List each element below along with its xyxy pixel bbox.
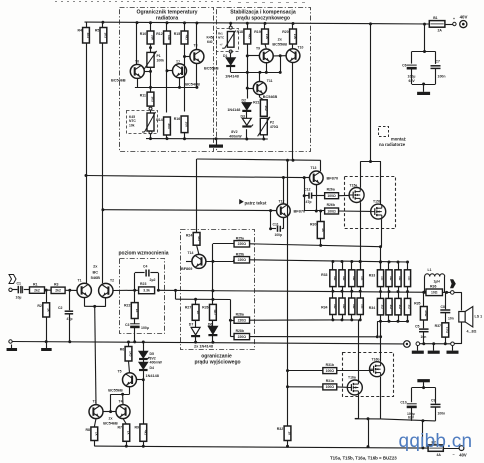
- svg-text:220Ω: 220Ω: [238, 258, 247, 262]
- svg-text:1Ω: 1Ω: [333, 304, 337, 309]
- svg-text:4k7: 4k7: [213, 310, 217, 316]
- svg-text:1k: 1k: [127, 431, 131, 435]
- svg-text:C9: C9: [431, 399, 435, 403]
- svg-text:3.3k: 3.3k: [143, 289, 150, 293]
- svg-text:R16: R16: [174, 117, 180, 121]
- svg-text:4k7: 4k7: [248, 34, 252, 40]
- svg-text:R31a: R31a: [326, 379, 334, 383]
- svg-text:10Ω: 10Ω: [446, 327, 450, 334]
- svg-text:R30: R30: [310, 223, 316, 227]
- svg-text:1Ω: 1Ω: [342, 276, 346, 281]
- svg-text:C8: C8: [441, 305, 445, 309]
- svg-text:P1: P1: [157, 54, 161, 58]
- svg-text:R2: R2: [37, 304, 42, 308]
- svg-text:1k: 1k: [196, 311, 200, 315]
- svg-text:3k3: 3k3: [86, 32, 90, 38]
- svg-text:R11: R11: [140, 94, 146, 98]
- svg-text:R26a: R26a: [327, 188, 335, 192]
- svg-text:T1: T1: [78, 278, 82, 282]
- svg-text:C4: C4: [143, 265, 147, 269]
- svg-text:C11: C11: [273, 222, 279, 226]
- svg-text:D2: D2: [242, 99, 247, 103]
- svg-text:T15b: T15b: [373, 200, 381, 204]
- svg-text:C5: C5: [415, 325, 420, 329]
- svg-text:470Ω: 470Ω: [270, 125, 279, 129]
- svg-text:R36: R36: [430, 285, 436, 289]
- svg-text:220Ω: 220Ω: [238, 319, 247, 323]
- svg-text:3k3: 3k3: [151, 96, 155, 102]
- svg-text:1N4148: 1N4148: [225, 74, 239, 79]
- svg-text:1Ω: 1Ω: [333, 276, 337, 281]
- svg-text:100: 100: [293, 34, 297, 40]
- svg-text:R24: R24: [186, 234, 192, 238]
- svg-text:R3: R3: [54, 282, 59, 286]
- svg-text:1Ω: 1Ω: [389, 304, 393, 309]
- svg-text:1Ω: 1Ω: [398, 304, 402, 309]
- svg-text:C2: C2: [58, 306, 63, 310]
- svg-text:R25a: R25a: [236, 236, 244, 240]
- svg-text:R19: R19: [254, 30, 260, 34]
- svg-text:+: +: [453, 17, 455, 21]
- svg-text:100p: 100p: [275, 233, 283, 237]
- svg-text:3k3: 3k3: [167, 123, 171, 129]
- svg-text:radiatora: radiatora: [156, 16, 178, 22]
- svg-text:BF870: BF870: [294, 208, 306, 213]
- svg-text:10k: 10k: [185, 122, 189, 128]
- svg-text:1k2: 1k2: [264, 105, 268, 111]
- svg-text:546B: 546B: [91, 275, 100, 280]
- svg-text:1k5: 1k5: [129, 351, 133, 357]
- svg-text:BF870: BF870: [327, 175, 339, 180]
- svg-text:4...8Ω: 4...8Ω: [467, 330, 477, 334]
- svg-text:40V: 40V: [460, 14, 468, 19]
- svg-text:T15a: T15a: [350, 183, 358, 187]
- svg-text:1Ω: 1Ω: [352, 304, 356, 309]
- svg-text:1N4148: 1N4148: [227, 108, 240, 112]
- svg-text:BC556B: BC556B: [272, 43, 287, 47]
- svg-text:1N4148: 1N4148: [146, 374, 159, 378]
- svg-text:4k7: 4k7: [144, 430, 148, 436]
- svg-text:R33: R33: [369, 273, 375, 277]
- svg-text:R14: R14: [156, 118, 162, 122]
- svg-text:10µ: 10µ: [16, 296, 22, 300]
- svg-text:C6: C6: [402, 64, 406, 68]
- svg-text:R7: R7: [118, 426, 123, 430]
- svg-text:R22: R22: [124, 304, 130, 308]
- svg-text:T16b: T16b: [372, 357, 380, 361]
- svg-text:100Ω: 100Ω: [327, 209, 336, 213]
- svg-text:1k: 1k: [321, 228, 325, 232]
- svg-text:R9: R9: [135, 426, 140, 430]
- svg-text:400mW: 400mW: [150, 361, 163, 365]
- svg-text:R5: R5: [95, 29, 100, 33]
- svg-text:1Ω: 1Ω: [408, 304, 412, 309]
- svg-text:D7: D7: [189, 323, 194, 327]
- svg-text:100µ: 100µ: [141, 326, 149, 330]
- svg-text:1µH: 1µH: [434, 279, 441, 283]
- svg-text:1Ω: 1Ω: [408, 276, 412, 281]
- svg-text:prądu wyjściowego: prądu wyjściowego: [194, 359, 240, 365]
- svg-text:2µ2: 2µ2: [150, 278, 156, 282]
- svg-text:L1: L1: [428, 268, 432, 272]
- svg-text:1k: 1k: [288, 431, 292, 435]
- svg-text:D4: D4: [150, 366, 155, 370]
- svg-text:R33: R33: [321, 273, 327, 277]
- svg-text:10Ω: 10Ω: [424, 310, 428, 317]
- svg-text:33k: 33k: [167, 35, 171, 41]
- svg-text:2k2: 2k2: [34, 288, 40, 292]
- svg-text:C1: C1: [17, 282, 22, 286]
- svg-text:10n: 10n: [448, 317, 454, 321]
- svg-text:1Ω: 1Ω: [381, 276, 385, 281]
- svg-text:100: 100: [265, 34, 269, 40]
- svg-text:R1: R1: [33, 282, 38, 286]
- svg-text:40V: 40V: [459, 453, 467, 458]
- svg-text:R34: R34: [321, 306, 327, 310]
- svg-text:100n: 100n: [438, 75, 446, 79]
- svg-text:P2: P2: [270, 121, 274, 125]
- svg-text:39k: 39k: [151, 35, 155, 41]
- svg-text:R35: R35: [414, 301, 420, 305]
- svg-text:T2: T2: [110, 278, 114, 282]
- svg-text:poziom wzmocnienia: poziom wzmocnienia: [118, 250, 168, 256]
- svg-text:1Ω: 1Ω: [398, 276, 402, 281]
- svg-text:BC556B: BC556B: [204, 67, 219, 71]
- svg-text:BC546B: BC546B: [263, 95, 278, 99]
- svg-text:C12: C12: [304, 187, 310, 191]
- svg-text:R28b: R28b: [236, 329, 244, 333]
- svg-text:na radiatorze: na radiatorze: [379, 142, 406, 147]
- svg-text:100k: 100k: [157, 59, 165, 63]
- svg-text:R37: R37: [435, 324, 441, 328]
- svg-text:R12: R12: [156, 32, 162, 36]
- svg-text:T11: T11: [267, 79, 273, 83]
- svg-text:1Ω: 1Ω: [342, 304, 346, 309]
- svg-text:T15a, T15b, T16a, T16b = BUZ23: T15a, T15b, T16a, T16b = BUZ23: [330, 455, 397, 460]
- svg-text:T3: T3: [93, 400, 97, 404]
- svg-text:T16a: T16a: [348, 376, 356, 380]
- svg-text:T13: T13: [311, 166, 317, 170]
- svg-text:R31b: R31b: [326, 363, 334, 367]
- svg-text:220Ω: 220Ω: [238, 335, 247, 339]
- svg-text:C7: C7: [436, 60, 440, 64]
- svg-text:B1: B1: [433, 16, 437, 20]
- svg-text:R32: R32: [277, 427, 283, 431]
- svg-text:NTC: NTC: [218, 36, 225, 40]
- svg-text:T4: T4: [119, 400, 123, 404]
- svg-text:R26: R26: [202, 305, 208, 309]
- svg-text:montaż: montaż: [391, 137, 406, 142]
- svg-text:patrz tekst: patrz tekst: [245, 200, 267, 205]
- svg-text:1Ω: 1Ω: [389, 276, 393, 281]
- svg-text:1Ω: 1Ω: [360, 276, 364, 281]
- svg-text:100n: 100n: [438, 412, 446, 416]
- svg-text:R4: R4: [78, 29, 83, 33]
- svg-text:1Ω: 1Ω: [352, 276, 356, 281]
- svg-text:R21: R21: [253, 101, 259, 105]
- svg-text:R6: R6: [120, 348, 125, 352]
- svg-text:R27: R27: [185, 305, 191, 309]
- svg-text:1Ω: 1Ω: [381, 304, 385, 309]
- svg-text:R28a: R28a: [236, 313, 244, 317]
- svg-text:C3: C3: [125, 323, 130, 327]
- svg-text:640: 640: [207, 40, 213, 44]
- svg-text:BC556B: BC556B: [108, 389, 123, 393]
- svg-text:400mW: 400mW: [229, 134, 242, 138]
- svg-text:1k: 1k: [46, 308, 50, 312]
- svg-text:4A: 4A: [437, 453, 442, 457]
- svg-text:10k: 10k: [129, 124, 135, 128]
- svg-text:1k: 1k: [135, 309, 139, 313]
- svg-text:4k7: 4k7: [185, 35, 189, 41]
- svg-text:2A: 2A: [438, 28, 443, 32]
- svg-text:R8: R8: [86, 428, 91, 432]
- svg-text:220Ω: 220Ω: [238, 242, 247, 246]
- svg-text:T10: T10: [298, 46, 304, 50]
- svg-text:prądu spoczynkowego: prądu spoczynkowego: [236, 16, 290, 22]
- svg-text:R10: R10: [140, 32, 146, 36]
- svg-text:2x 1N4148: 2x 1N4148: [194, 344, 214, 349]
- svg-text:10Ω: 10Ω: [431, 291, 438, 295]
- svg-text:100Ω: 100Ω: [326, 385, 335, 389]
- svg-text:100Ω: 100Ω: [326, 369, 335, 373]
- svg-text:T14: T14: [188, 251, 194, 255]
- svg-text:R18: R18: [237, 30, 243, 34]
- svg-text:1k: 1k: [95, 432, 99, 436]
- svg-text:BC546B: BC546B: [111, 79, 126, 83]
- svg-text:T9: T9: [256, 47, 260, 51]
- svg-text:BF869: BF869: [181, 267, 192, 271]
- svg-text:1Ω: 1Ω: [360, 304, 364, 309]
- svg-text:4k7: 4k7: [197, 236, 201, 242]
- svg-text:NTC: NTC: [129, 119, 136, 123]
- svg-text:qqibb.cn: qqibb.cn: [399, 431, 473, 452]
- svg-text:R20: R20: [282, 30, 288, 34]
- svg-text:BC546B: BC546B: [185, 82, 200, 86]
- svg-text:47p: 47p: [306, 200, 312, 204]
- svg-text:R34: R34: [369, 306, 375, 310]
- svg-text:T7: T7: [176, 60, 180, 64]
- svg-text:R23: R23: [140, 282, 146, 286]
- svg-text:T5: T5: [118, 370, 122, 374]
- svg-text:R25b: R25b: [236, 252, 244, 256]
- svg-text:100Ω: 100Ω: [327, 194, 336, 198]
- svg-text:2k2: 2k2: [55, 289, 61, 293]
- svg-text:C10: C10: [400, 401, 406, 405]
- svg-text:R15: R15: [174, 32, 180, 36]
- svg-text:K45/: K45/: [207, 36, 214, 40]
- svg-text:3k3: 3k3: [104, 32, 108, 38]
- svg-text:BC: BC: [92, 269, 98, 274]
- svg-text:BC546B: BC546B: [103, 422, 118, 426]
- svg-text:LS 1: LS 1: [475, 315, 483, 319]
- svg-text:R26b: R26b: [327, 203, 335, 207]
